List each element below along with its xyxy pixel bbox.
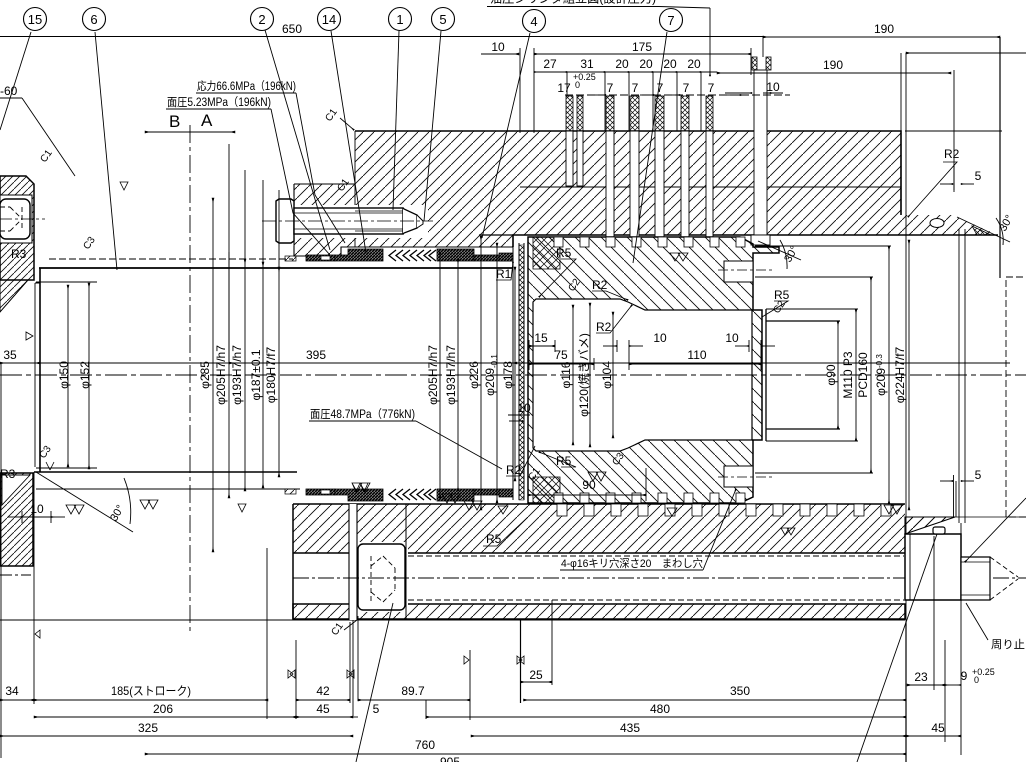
svg-text:20: 20 bbox=[639, 57, 653, 71]
main centerline bbox=[0, 374, 1026, 376]
tie bolt shaft hidden lines bbox=[0, 556, 1026, 600]
svg-text:435: 435 bbox=[620, 721, 640, 735]
svg-text:9: 9 bbox=[961, 669, 968, 683]
cylinder head block body bbox=[294, 131, 998, 256]
bottom dim row4 bbox=[145, 753, 906, 755]
svg-text:15: 15 bbox=[28, 12, 42, 27]
svg-text:0: 0 bbox=[575, 80, 580, 90]
svg-text:27: 27 bbox=[543, 57, 557, 71]
svg-text:4-φ16キリ穴深さ20 まわし穴: 4-φ16キリ穴深さ20 まわし穴 bbox=[561, 556, 703, 570]
head spigot o-ring bbox=[930, 219, 991, 236]
svg-text:B: B bbox=[169, 112, 180, 131]
dim 10 110 10 piston bbox=[603, 340, 775, 370]
svg-text:10: 10 bbox=[30, 502, 44, 516]
gland seal row lower bbox=[285, 489, 513, 501]
svg-text:R1: R1 bbox=[496, 267, 512, 281]
lower band groove tabs bbox=[557, 504, 891, 516]
svg-text:φ152: φ152 bbox=[78, 361, 92, 389]
gland bolt counterbore bbox=[265, 196, 294, 246]
svg-text:φ90: φ90 bbox=[824, 364, 838, 385]
R label leaders bbox=[340, 118, 957, 630]
bolt centerline bbox=[262, 220, 433, 222]
piston rod bbox=[34, 268, 513, 472]
B-A section line bbox=[145, 125, 235, 635]
piston nut bbox=[755, 246, 891, 504]
phi 150 152 verticals bbox=[68, 283, 89, 469]
svg-text:応力66.6MPa（196kN): 応力66.6MPa（196kN) bbox=[197, 79, 296, 93]
svg-text:-60: -60 bbox=[0, 84, 18, 98]
main phi dimension verticals left cluster bbox=[213, 144, 279, 552]
svg-text:φ224H7/f7: φ224H7/f7 bbox=[893, 346, 907, 403]
svg-text:7: 7 bbox=[667, 13, 674, 28]
dim 15 75 piston bbox=[529, 340, 594, 370]
svg-text:φ205H7/h7: φ205H7/h7 bbox=[214, 345, 228, 405]
svg-text:10: 10 bbox=[517, 401, 531, 415]
svg-text:5: 5 bbox=[975, 169, 982, 183]
svg-text:20: 20 bbox=[663, 57, 677, 71]
svg-text:35: 35 bbox=[3, 348, 17, 362]
svg-text:34: 34 bbox=[5, 684, 19, 698]
svg-text:φ205H7/h7: φ205H7/h7 bbox=[426, 345, 440, 405]
svg-text:R2: R2 bbox=[596, 320, 612, 334]
svg-text:110: 110 bbox=[687, 348, 706, 362]
svg-text:A: A bbox=[201, 111, 213, 130]
30 degree angle lower left bbox=[36, 472, 133, 532]
svg-text:15: 15 bbox=[534, 331, 548, 345]
svg-text:面圧5.23MPa（196kN): 面圧5.23MPa（196kN) bbox=[167, 96, 271, 109]
svg-text:6: 6 bbox=[90, 12, 97, 27]
balloon leader lines bbox=[0, 30, 667, 270]
svg-text:5: 5 bbox=[439, 12, 446, 27]
svg-text:23: 23 bbox=[914, 670, 928, 684]
svg-text:7: 7 bbox=[657, 81, 664, 95]
svg-text:45: 45 bbox=[316, 702, 330, 716]
top cut-off title and leader bbox=[487, 0, 710, 8]
svg-text:190: 190 bbox=[823, 58, 843, 72]
svg-text:325: 325 bbox=[138, 721, 158, 735]
chevron V-packing upper bbox=[389, 250, 436, 261]
svg-text:R5: R5 bbox=[486, 532, 502, 546]
svg-text:φ285: φ285 bbox=[198, 361, 212, 389]
dim 90 piston lower bbox=[528, 468, 646, 501]
surface finish symbols bbox=[26, 182, 902, 678]
svg-text:R2: R2 bbox=[506, 463, 522, 477]
svg-text:10: 10 bbox=[491, 40, 505, 54]
svg-text:2: 2 bbox=[258, 12, 265, 27]
svg-text:M110 P3: M110 P3 bbox=[841, 351, 855, 398]
svg-text:R3: R3 bbox=[11, 247, 27, 261]
small 7-groove arrows bbox=[592, 93, 783, 95]
svg-text:20: 20 bbox=[615, 57, 629, 71]
svg-text:45: 45 bbox=[931, 721, 945, 735]
dim 190 second bbox=[710, 8, 954, 190]
svg-text:PCD160: PCD160 bbox=[856, 352, 870, 398]
left rod-eye block upper bbox=[0, 176, 45, 312]
svg-text:650: 650 bbox=[282, 22, 302, 36]
balloons bbox=[24, 8, 683, 33]
svg-text:7: 7 bbox=[708, 81, 715, 95]
svg-text:10: 10 bbox=[653, 331, 667, 345]
dim 5 head right bbox=[940, 165, 974, 192]
seal retainer strips above block bbox=[566, 57, 771, 131]
svg-text:R5: R5 bbox=[556, 246, 572, 260]
phi dimension verticals rod end cluster bbox=[838, 240, 909, 510]
svg-text:89.7: 89.7 bbox=[401, 684, 425, 698]
bottom dim row1 bbox=[0, 363, 961, 762]
head seal stack slots bbox=[566, 70, 770, 245]
svg-text:14: 14 bbox=[322, 12, 336, 27]
bottom dim row3 bbox=[0, 735, 961, 737]
shared horizontal dimension row bbox=[0, 362, 1010, 364]
svg-text:20: 20 bbox=[687, 57, 701, 71]
phi dimension verticals right cluster bbox=[440, 236, 515, 510]
svg-text:R5: R5 bbox=[556, 454, 572, 468]
annotation stress bbox=[0, 79, 1025, 651]
svg-text:31: 31 bbox=[580, 57, 594, 71]
bottom leaders bbox=[356, 498, 1026, 762]
svg-text:φ187±0.1: φ187±0.1 bbox=[249, 349, 263, 400]
svg-text:10: 10 bbox=[766, 80, 780, 94]
svg-text:25: 25 bbox=[529, 668, 543, 682]
svg-text:φ193H7/h7: φ193H7/h7 bbox=[444, 345, 458, 405]
svg-text:φ226: φ226 bbox=[467, 361, 481, 389]
cylinder bore lines bbox=[36, 259, 300, 489]
top border line bbox=[0, 36, 763, 38]
svg-text:7: 7 bbox=[607, 81, 614, 95]
svg-text:5: 5 bbox=[975, 468, 982, 482]
B A section letters bbox=[169, 111, 213, 131]
gland seal row upper bbox=[285, 249, 513, 261]
svg-text:R3: R3 bbox=[0, 467, 16, 481]
rod end head bbox=[905, 527, 1018, 600]
svg-text:175: 175 bbox=[632, 40, 652, 54]
middle dimension texts bbox=[3, 169, 981, 516]
30 degree angle piston top bbox=[758, 240, 801, 269]
cylinder lower wall band bbox=[0, 504, 955, 620]
svg-text:φ116: φ116 bbox=[559, 361, 573, 388]
svg-text:R2: R2 bbox=[944, 147, 960, 161]
dashed groove pitch line bbox=[565, 94, 790, 96]
svg-text:17: 17 bbox=[557, 81, 571, 95]
left rod-eye block lower bbox=[0, 473, 33, 566]
piston body bbox=[513, 237, 779, 503]
rotated phi dimension texts bbox=[57, 333, 907, 417]
svg-text:φ180H7/f7: φ180H7/f7 bbox=[264, 346, 278, 403]
dim 175 bbox=[534, 48, 751, 133]
svg-text:7: 7 bbox=[632, 81, 639, 95]
phi dimension verticals piston bore bbox=[573, 303, 613, 447]
dim 190 top bbox=[763, 37, 1000, 57]
dim 10 top left bbox=[481, 48, 520, 133]
svg-text:905: 905 bbox=[440, 755, 460, 762]
clevis phantom rectangle bbox=[1006, 277, 1026, 517]
svg-text:φ150: φ150 bbox=[57, 361, 71, 389]
lower cap bolt hole bbox=[349, 504, 408, 620]
bottom dimension texts bbox=[5, 668, 967, 762]
svg-text:φ193H7/h7: φ193H7/h7 bbox=[230, 345, 244, 405]
chevron V-packing lower bbox=[389, 489, 436, 500]
30deg labels bbox=[108, 213, 1016, 523]
top dimension texts bbox=[282, 22, 894, 95]
piston bolt holes bbox=[718, 261, 772, 487]
svg-text:206: 206 bbox=[153, 702, 173, 716]
piston crown grooves bbox=[554, 237, 745, 503]
svg-text:R5: R5 bbox=[774, 288, 790, 302]
cylinder right face extension bbox=[905, 53, 907, 762]
svg-text:0: 0 bbox=[974, 675, 979, 685]
svg-text:75: 75 bbox=[554, 348, 568, 362]
dim 10 right underline bbox=[763, 92, 783, 94]
dim line at head spigot bbox=[906, 52, 1026, 54]
svg-text:1: 1 bbox=[396, 12, 403, 27]
svg-text:R2: R2 bbox=[592, 278, 608, 292]
svg-text:5: 5 bbox=[373, 702, 380, 716]
svg-text:面圧48.7MPa（776kN): 面圧48.7MPa（776kN) bbox=[310, 408, 415, 421]
svg-text:油圧シリンダ組立図(設計圧力): 油圧シリンダ組立図(設計圧力) bbox=[490, 0, 656, 6]
R and C labels bbox=[0, 147, 960, 546]
svg-text:350: 350 bbox=[730, 684, 750, 698]
svg-text:周り止: 周り止 bbox=[991, 638, 1025, 651]
dim 10 gland left bbox=[508, 415, 530, 421]
svg-text:10: 10 bbox=[725, 331, 739, 345]
svg-text:7: 7 bbox=[683, 81, 690, 95]
svg-text:42: 42 bbox=[316, 684, 330, 698]
dim 5 rod lower bbox=[940, 475, 974, 517]
top right end plate lines bbox=[901, 37, 1002, 523]
svg-text:190: 190 bbox=[874, 22, 894, 36]
svg-text:395: 395 bbox=[306, 348, 326, 362]
svg-text:480: 480 bbox=[650, 702, 670, 716]
rod flange hex bolt bbox=[276, 199, 428, 243]
svg-text:185(ストローク): 185(ストローク) bbox=[111, 684, 191, 698]
30 degree chamfer top right bbox=[957, 217, 1010, 245]
svg-text:4: 4 bbox=[530, 14, 537, 29]
bottom dim row2 bbox=[34, 700, 906, 719]
svg-text:φ104: φ104 bbox=[600, 361, 614, 389]
svg-text:760: 760 bbox=[415, 738, 435, 752]
dim chain 27 31 20 20 20 20 bbox=[534, 72, 717, 131]
svg-text:φ120(焼きバメ): φ120(焼きバメ) bbox=[577, 333, 591, 417]
dim 10 rod left step bbox=[8, 511, 65, 523]
svg-text:φ178: φ178 bbox=[501, 361, 515, 389]
